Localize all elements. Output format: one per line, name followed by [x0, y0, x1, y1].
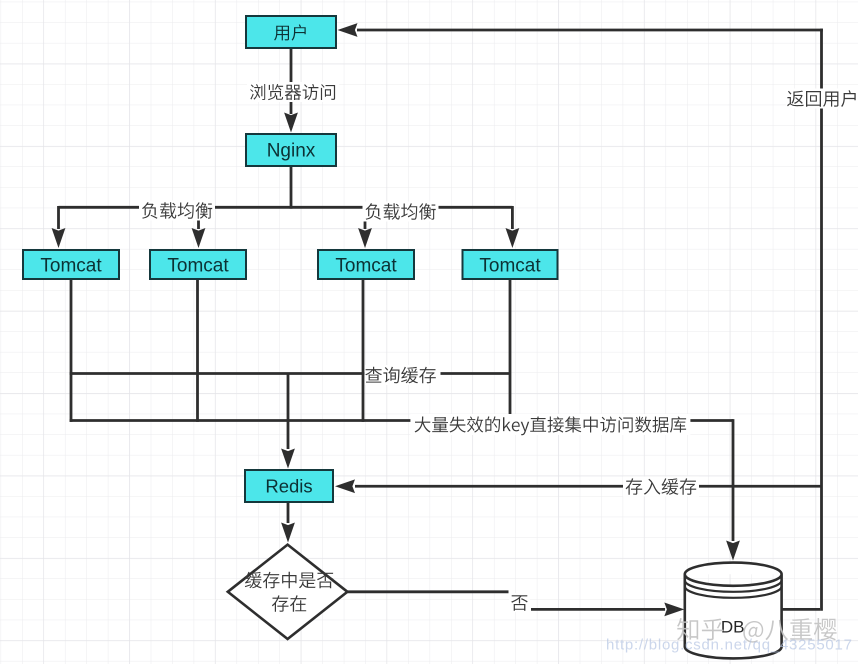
- label 大量失效的key直接集中访问数据库: [415, 416, 686, 435]
- label 负载均衡 left: [142, 202, 212, 219]
- node: decision diamond: [228, 545, 348, 639]
- label bg store-cache: [623, 477, 699, 497]
- diamond text line1 缓存中是否: [245, 572, 334, 589]
- wire: drop to Tomcat 3: [364, 206, 367, 229]
- label 负载均衡 right: [366, 203, 436, 220]
- label bg browser-access: [247, 82, 339, 102]
- wire: user to nginx: [290, 48, 293, 114]
- svg-text:Tomcat: Tomcat: [40, 256, 102, 277]
- label bg mass-miss: [410, 414, 690, 435]
- wire: drop to Tomcat 1: [57, 206, 60, 229]
- wire: branch bus horizontal: [59, 206, 513, 209]
- svg-text:Redis: Redis: [265, 476, 312, 497]
- svg-text:Tomcat: Tomcat: [479, 256, 541, 277]
- svg-text:Tomcat: Tomcat: [167, 256, 229, 277]
- node: DB cylinder: [685, 563, 782, 659]
- label bg query-cache: [365, 365, 441, 385]
- node: tomcat box 3: [318, 250, 414, 279]
- diamond text line2 存在: [272, 595, 306, 611]
- wire: Tomcat 1 down: [70, 279, 73, 422]
- watermark zhihu part2: [743, 618, 836, 643]
- label 返回用户: [787, 90, 856, 107]
- label bg return-user: [786, 89, 858, 109]
- wire: DB to right riser: [782, 608, 821, 611]
- wire: line B down to DB: [732, 419, 735, 541]
- wire: Redis to diamond: [287, 502, 290, 523]
- wire: Tomcat 3 down: [362, 279, 365, 422]
- wire: bus to Redis: [287, 374, 290, 450]
- wire: drop to Tomcat 2: [197, 206, 200, 229]
- label 查询缓存: [365, 367, 436, 384]
- svg-text:http://blog.csdn.net/qq_432550: http://blog.csdn.net/qq_43255017: [606, 637, 853, 654]
- watermark zhihu part1: [677, 618, 723, 640]
- svg-text:Tomcat: Tomcat: [335, 256, 397, 277]
- wire: store-into-cache line: [355, 485, 822, 488]
- wire: no-branch right segment into DB: [531, 608, 665, 611]
- wire: nginx trunk down: [290, 166, 293, 209]
- label bg load-balance right: [363, 202, 439, 222]
- wire: Tomcat 2 down: [196, 279, 199, 422]
- wire: no-branch left segment: [347, 590, 509, 593]
- wire: drop to Tomcat 4: [511, 206, 514, 229]
- svg-text:Nginx: Nginx: [267, 141, 316, 162]
- user box text 用户: [274, 24, 306, 40]
- node: tomcat box 1: [23, 250, 119, 279]
- node: nginx box: [246, 134, 336, 166]
- DB disc line 1: [685, 580, 782, 592]
- wire: Tomcat 4 down: [509, 279, 512, 422]
- label 存入缓存: [626, 478, 697, 495]
- node: tomcat box 4: [463, 250, 558, 279]
- wire: return-to-user top run: [357, 29, 823, 32]
- node: redis box: [245, 470, 333, 502]
- DB disc line 2: [685, 586, 782, 598]
- svg-text:DB: DB: [721, 618, 745, 637]
- label 浏览器访问: [250, 84, 335, 100]
- label bg load-balance left: [139, 201, 215, 221]
- label 否: [511, 595, 528, 610]
- node: tomcat box 2: [150, 250, 246, 279]
- node: user box: [246, 16, 336, 48]
- wire: right riser up: [820, 29, 823, 611]
- label bg no: [509, 593, 530, 612]
- wire: mass-miss bus (line B): [70, 419, 733, 422]
- wire: query-cache bus (line A): [70, 372, 510, 375]
